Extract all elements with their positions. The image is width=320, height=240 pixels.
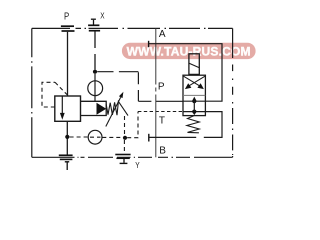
enclosure boundary top <box>32 27 233 29</box>
wire drain dot2 up to valve T dashed channel <box>127 112 138 138</box>
solenoid valve return spring <box>187 116 199 133</box>
wire drain dashed line dot1 to orifice2 <box>70 136 88 138</box>
orifice (nozzle) on X line <box>88 81 103 96</box>
node A channel plugged end tick <box>148 41 150 47</box>
open position double arrow <box>193 100 195 114</box>
port X plug <box>88 19 100 31</box>
node T channel plugged end tick <box>148 134 150 142</box>
svg-text:Y: Y <box>135 160 140 170</box>
node drain junction dot1 <box>65 135 69 139</box>
node drain junction dot2 <box>123 136 127 140</box>
svg-text:P: P <box>64 11 69 22</box>
open position through lines <box>183 100 205 102</box>
wire X stem down (long dashes) <box>94 31 96 69</box>
svg-text:P: P <box>158 82 165 93</box>
pilot adjustable spring <box>106 101 128 115</box>
main valve flow arrow <box>61 97 63 114</box>
main valve body <box>55 96 81 121</box>
wire drain dot2 down to Y port <box>123 140 125 154</box>
wire drain dashed orifice2 to dot2 <box>102 136 122 138</box>
enclosure boundary left <box>31 28 33 157</box>
pilot relief seat box <box>81 101 107 115</box>
watermark pill <box>122 43 256 59</box>
port T symbol <box>59 155 73 170</box>
port P symbol bars <box>61 26 75 31</box>
wire spring chamber drain (dashed) <box>124 116 126 136</box>
wire A-B channel vertical line <box>155 28 157 157</box>
wire T channel lateral to valve <box>149 112 222 138</box>
spring adjustment arrow <box>106 97 121 126</box>
wire A channel lateral to valve <box>149 44 222 101</box>
node X junction dot <box>93 70 97 74</box>
port Y symbol <box>115 155 130 164</box>
wire P stem down to main valve <box>67 32 69 96</box>
solenoid valve body <box>183 75 205 115</box>
svg-text:T: T <box>159 116 165 127</box>
wire pilot line X to solenoid valve P (long dash) <box>97 72 183 102</box>
svg-text:A: A <box>159 29 166 40</box>
wire main valve outlet to T <box>66 121 68 154</box>
wire orifice feed line <box>94 74 96 102</box>
closed position crossed arrows <box>184 76 200 86</box>
enclosure boundary bottom <box>32 156 233 158</box>
solenoid coil U1 <box>189 54 199 75</box>
wire solenoid valve T dashed line <box>138 111 183 113</box>
orifice 2 on drain line <box>88 130 102 144</box>
svg-text:B: B <box>159 145 166 156</box>
pilot poppet (filled triangle) <box>97 103 107 115</box>
svg-text:X: X <box>100 11 105 21</box>
node valve P dot <box>192 99 196 103</box>
enclosure boundary right <box>232 28 234 157</box>
node valve T dot <box>192 110 196 114</box>
pilot control dashed lines (left of main valve) <box>42 82 67 107</box>
